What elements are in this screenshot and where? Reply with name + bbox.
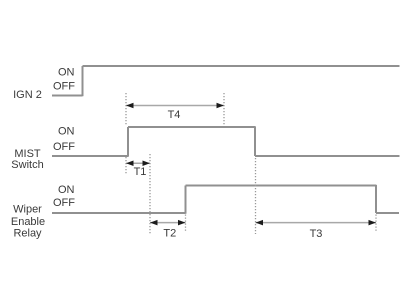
T4 dimension arrow shaft [126,105,224,107]
wire: IGN 2 OFF segment [52,95,83,97]
svg-text:Wiper: Wiper [13,204,42,216]
T2 right arrowhead [178,220,186,226]
wire: Wiper OFF left segment [52,212,186,214]
wire: IGN 2 rising edge [82,66,84,96]
T4/T1 left extension dotted line (lower) [125,157,127,174]
T3 dimension arrow shaft [256,222,377,224]
svg-text:ON: ON [58,184,75,196]
T1 left arrowhead [126,161,134,167]
T3 right extension dotted line [375,215,377,232]
T3 left extension dotted line [255,158,257,234]
svg-text:IGN 2: IGN 2 [13,89,42,101]
svg-text:T3: T3 [310,228,323,240]
svg-text:OFF: OFF [53,81,75,93]
wire: MIST OFF right segment [255,155,400,157]
T2 right extension dotted line [185,215,187,232]
T4 right arrowhead [217,103,225,109]
T2 dimension arrow shaft [150,222,186,224]
T4 left extension dotted line (upper) [125,93,127,126]
T2 left arrowhead [150,220,158,226]
svg-text:Enable: Enable [11,216,45,228]
T1 right arrowhead [143,161,151,167]
wire: MIST OFF left segment [52,155,128,157]
T4 right extension dotted line [223,93,225,126]
T3 left arrowhead [256,220,264,226]
svg-text:T4: T4 [168,109,181,121]
svg-text:T1: T1 [134,166,147,178]
wire: MIST ON segment [128,126,255,128]
svg-text:Relay: Relay [13,228,42,240]
svg-text:ON: ON [58,126,75,138]
svg-text:OFF: OFF [53,141,75,153]
wire: MIST rising edge [127,127,129,157]
wire: Wiper OFF right segment [376,212,399,214]
wire: Wiper falling edge [375,185,377,213]
T1 right / T2 left shared extension dotted line [149,154,151,234]
T3 right arrowhead [369,220,377,226]
svg-text:Switch: Switch [11,159,43,171]
svg-text:T2: T2 [163,228,176,240]
T4 left arrowhead [126,103,134,109]
T1 dimension arrow shaft [126,162,150,164]
wire: Wiper ON segment [186,185,377,187]
wire: Wiper rising edge [185,186,187,214]
svg-text:OFF: OFF [53,197,75,209]
wire: MIST falling edge [254,126,256,156]
wire: IGN 2 ON segment [83,65,400,67]
svg-text:ON: ON [58,67,75,79]
